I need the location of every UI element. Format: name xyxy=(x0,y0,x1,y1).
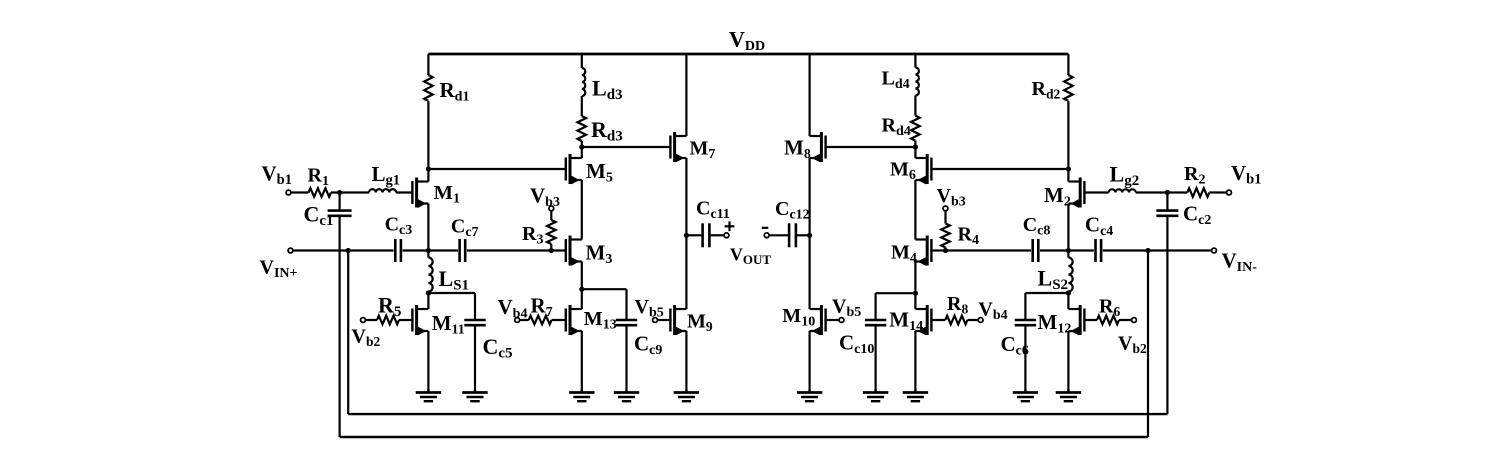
svg-text:LS2: LS2 xyxy=(1038,266,1069,294)
transistor M4 xyxy=(915,236,931,266)
wire Vb3 to R4 xyxy=(944,211,946,224)
wire Cc9 top xyxy=(625,289,627,320)
resistor Rd3 xyxy=(578,116,587,141)
node Rd3 bottom xyxy=(579,144,584,149)
ground Cc9 xyxy=(614,389,639,401)
ground Cc10 xyxy=(863,389,888,401)
svg-text:M3: M3 xyxy=(586,241,613,268)
wire Cc1 to bottom feedback wire xyxy=(339,216,341,437)
ground M9 xyxy=(674,389,699,401)
wire Ld4 to Rd4 xyxy=(914,96,916,116)
svg-text:Vb4: Vb4 xyxy=(978,299,1007,324)
inductor LS2 xyxy=(1068,258,1072,292)
svg-text:Lg1: Lg1 xyxy=(372,162,401,189)
svg-text:M11: M11 xyxy=(432,311,465,338)
transistor M8 xyxy=(810,132,826,162)
svg-text:R7: R7 xyxy=(531,294,553,321)
svg-text:Cc9: Cc9 xyxy=(634,332,662,359)
wire to LS2 xyxy=(1067,251,1069,258)
node Cc12 junction xyxy=(807,233,812,238)
node LS1 bottom xyxy=(426,290,431,295)
minus sign xyxy=(762,227,769,229)
wire M8 source to M10 drain xyxy=(808,158,810,309)
svg-text:LS1: LS1 xyxy=(439,266,470,294)
svg-text:Ld4: Ld4 xyxy=(882,67,910,92)
wire Cc10 top xyxy=(874,293,876,320)
wire Vb3 to R3 xyxy=(550,211,552,220)
svg-text:M5: M5 xyxy=(586,159,613,186)
terminal VIN- xyxy=(1212,248,1217,253)
wire R3 to gate wire xyxy=(550,244,552,251)
node M2 drain xyxy=(1066,166,1071,171)
wire R6 to Vb2 xyxy=(1119,319,1131,321)
svg-text:Rd4: Rd4 xyxy=(882,114,911,139)
wire M7 drain to rail xyxy=(685,54,687,136)
transistor M14 xyxy=(915,305,931,335)
wire Vb2 to R5 xyxy=(366,319,377,321)
wire M7 source to M9 drain xyxy=(685,158,687,309)
resistor Rd4 xyxy=(911,116,920,141)
transistor M7 xyxy=(670,132,686,162)
svg-text:Vb1: Vb1 xyxy=(1231,161,1262,188)
svg-text:Cc8: Cc8 xyxy=(1023,214,1051,239)
svg-text:M7: M7 xyxy=(690,138,716,163)
resistor R1 xyxy=(309,188,332,197)
wire Rd1 top xyxy=(427,54,429,75)
wire M8 drain to rail xyxy=(808,54,810,136)
svg-text:VOUT: VOUT xyxy=(730,244,772,267)
svg-text:M6: M6 xyxy=(890,159,916,184)
wire Ld3 to Rd3 xyxy=(581,96,583,116)
svg-text:M9: M9 xyxy=(687,311,713,335)
svg-text:M14: M14 xyxy=(889,307,923,334)
node M3 M13 tee xyxy=(579,287,584,292)
wire Rd1 to M1 drain xyxy=(427,101,429,182)
transistor M5 xyxy=(566,154,582,184)
svg-text:M8: M8 xyxy=(784,136,811,163)
wire Cc4 to VIN- terminal xyxy=(1103,249,1212,251)
wire M5 source to M3 drain xyxy=(581,180,583,240)
svg-text:Cc2: Cc2 xyxy=(1183,202,1211,229)
node LS2 bottom xyxy=(1066,290,1071,295)
terminal Vb2 right xyxy=(1132,318,1137,323)
resistor R8 xyxy=(945,316,967,325)
wire M2 source to input node xyxy=(1067,204,1069,251)
wire terminal to Cc12 xyxy=(769,234,788,236)
capacitor Cc11 xyxy=(701,223,704,247)
inductor Lg1 xyxy=(369,189,396,192)
svg-text:Vb2: Vb2 xyxy=(1118,333,1147,357)
wire M6 gate to M2 drain xyxy=(931,168,1068,170)
capacitor Cc6 xyxy=(1015,319,1036,322)
transistor M11 xyxy=(412,305,428,335)
svg-text:M1: M1 xyxy=(434,182,460,207)
resistor R5 xyxy=(377,316,399,325)
node VIN+ tee xyxy=(346,248,351,253)
wire Cc6 top xyxy=(1024,293,1026,320)
svg-text:Rd2: Rd2 xyxy=(1032,78,1061,102)
svg-text:Vb1: Vb1 xyxy=(262,162,293,189)
svg-text:Cc4: Cc4 xyxy=(1085,213,1113,240)
wire node to Cc6 xyxy=(1025,292,1068,294)
node R1 Lg1 Cc1 xyxy=(337,190,342,195)
wire to LS1 xyxy=(427,251,429,258)
svg-text:Vb3: Vb3 xyxy=(530,184,560,211)
wire Cc9 to ground xyxy=(625,325,627,389)
wire Cc6 to ground xyxy=(1024,325,1026,389)
terminal Vb2 left xyxy=(361,318,366,323)
wire Rd2 to M2 drain xyxy=(1067,101,1069,182)
svg-text:R8: R8 xyxy=(947,293,968,317)
capacitor Cc2 xyxy=(1156,209,1178,212)
wire VIN+ tee down xyxy=(347,251,349,415)
node M2 source input xyxy=(1066,248,1071,253)
wire Cc12 to node xyxy=(797,234,810,236)
wire M1 source to input node xyxy=(427,204,429,251)
svg-text:R3: R3 xyxy=(522,223,543,248)
svg-text:VIN-: VIN- xyxy=(1222,248,1258,275)
wire M14 source to ground xyxy=(914,331,916,389)
wire Vb4 to R7 xyxy=(520,319,529,321)
ground M13 xyxy=(569,389,594,401)
capacitor Cc9 xyxy=(616,319,637,322)
svg-text:R1: R1 xyxy=(308,164,329,189)
wire R7 to M13 gate xyxy=(552,319,566,321)
wire M4 source to M14 drain xyxy=(914,262,916,310)
wire Cc3 to Cc7 xyxy=(403,249,458,251)
wire Ld4 top xyxy=(914,54,916,68)
wire Rd3 node to M7 gate xyxy=(582,146,671,148)
terminal Vb4 right xyxy=(978,318,983,323)
ground M12 xyxy=(1056,389,1081,401)
wire R4 to gate wire xyxy=(944,248,946,251)
terminal Vb1 right xyxy=(1227,190,1232,195)
wire M10 gate to Vb5 xyxy=(826,319,839,321)
wire Cc10 to ground xyxy=(874,325,876,389)
wire Rd2 top xyxy=(1067,54,1069,75)
ground M10 xyxy=(797,389,822,401)
terminal Vb1 left xyxy=(286,190,291,195)
node M1 drain xyxy=(426,166,431,171)
wire LS1 to M11 drain xyxy=(427,292,429,310)
svg-text:M4: M4 xyxy=(891,242,917,267)
node M1 source input xyxy=(426,248,431,253)
resistor Rd2 xyxy=(1064,75,1073,101)
wire VIN- tee down xyxy=(1147,251,1149,438)
wire Cc1 top xyxy=(339,193,341,211)
svg-text:Vb5: Vb5 xyxy=(635,296,664,321)
svg-text:Cc10: Cc10 xyxy=(839,331,874,358)
resistor R2 xyxy=(1187,188,1209,197)
wire M3 source to M13 drain xyxy=(581,262,583,310)
plus sign xyxy=(725,221,735,231)
svg-text:Ld3: Ld3 xyxy=(592,76,623,104)
svg-text:VIN+: VIN+ xyxy=(260,257,298,282)
transistor M13 xyxy=(566,305,582,335)
svg-text:Lg2: Lg2 xyxy=(1110,162,1140,190)
wire M11 source to ground xyxy=(427,331,429,389)
resistor Rd1 xyxy=(424,75,433,101)
svg-text:Cc1: Cc1 xyxy=(304,202,334,230)
node Rd4 bottom xyxy=(913,144,918,149)
wire node to R2 xyxy=(1167,191,1187,193)
capacitor Cc5 xyxy=(464,319,485,322)
node M4 M14 tee xyxy=(913,291,918,296)
wire Rd4 to M6 drain xyxy=(914,141,916,158)
node VIN- tee xyxy=(1145,248,1150,253)
wire Cc2 top xyxy=(1166,193,1168,211)
wire Rd3 to M5 drain xyxy=(581,141,583,158)
wire R8 to Vb4 xyxy=(967,319,978,321)
wire Cc5 top xyxy=(474,293,476,320)
wire Cc11 to terminal xyxy=(711,234,724,236)
svg-text:Cc11: Cc11 xyxy=(696,198,730,223)
wire VIN+ input xyxy=(293,249,394,251)
ground M14 xyxy=(903,389,928,401)
wire Cc2 to bottom feedback wire xyxy=(1166,216,1168,414)
wire R5 to M11 gate xyxy=(399,319,412,321)
wire Lg1 to M1 gate xyxy=(396,191,412,193)
terminal Vb5 right xyxy=(839,318,844,323)
transistor M2 xyxy=(1068,178,1084,208)
svg-text:Cc3: Cc3 xyxy=(385,213,413,238)
wire M12 gate to R6 xyxy=(1084,319,1097,321)
wire M12 source to ground xyxy=(1067,331,1069,389)
svg-text:Rd3: Rd3 xyxy=(591,117,623,145)
wire M8 gate to Rd4 node xyxy=(826,146,916,148)
wire LS2 to M12 drain xyxy=(1067,292,1069,310)
wire M4 gate to Cc8 xyxy=(931,249,1031,251)
wire M10 source to ground xyxy=(808,331,810,389)
capacitor Cc12 xyxy=(788,223,791,247)
wire M1 drain to M5 gate xyxy=(428,168,565,170)
svg-text:Cc12: Cc12 xyxy=(775,198,810,223)
node R4 junction xyxy=(943,248,948,253)
capacitor Cc3 xyxy=(394,239,397,262)
ground Cc6 xyxy=(1013,389,1038,401)
wire Cc5 to ground xyxy=(474,325,476,389)
capacitor Cc8 xyxy=(1031,239,1034,262)
svg-text:VDD: VDD xyxy=(729,27,765,55)
terminal Vb5 left xyxy=(653,318,658,323)
ground M11 xyxy=(416,389,441,401)
svg-text:Vb4: Vb4 xyxy=(498,295,528,322)
svg-text:Rd1: Rd1 xyxy=(440,78,470,105)
node Cc11 junction xyxy=(684,233,689,238)
transistor M1 xyxy=(412,178,428,208)
wire M2 gate to Lg2 xyxy=(1084,191,1108,193)
wire cross-coupling upper xyxy=(348,413,1167,415)
wire tee to Cc10 xyxy=(876,292,916,294)
terminal VOUT minus xyxy=(764,233,769,238)
svg-text:M13: M13 xyxy=(584,308,617,333)
terminal VOUT plus xyxy=(724,233,729,238)
terminal VIN+ xyxy=(288,248,293,253)
node R3 junction xyxy=(549,248,554,253)
resistor R4 xyxy=(941,224,950,248)
wire M6 source to M4 drain xyxy=(914,180,916,240)
terminal Vb4 left xyxy=(515,318,520,323)
svg-text:R4: R4 xyxy=(958,224,979,249)
inductor Lg2 xyxy=(1109,189,1136,192)
capacitor Cc7 xyxy=(458,239,461,262)
capacitor Cc1 xyxy=(328,209,352,212)
transistor M10 xyxy=(810,305,826,335)
wire Cc8 to Cc4 xyxy=(1040,249,1094,251)
transistor M9 xyxy=(670,305,686,335)
wire Vb1 to R1 xyxy=(291,191,308,193)
wire Lg2 to node xyxy=(1136,191,1168,193)
terminal Vb3 left xyxy=(549,206,554,211)
capacitor Cc4 xyxy=(1094,239,1097,262)
ground Cc5 xyxy=(462,389,487,401)
wire Cc11 left xyxy=(686,234,701,236)
svg-text:Vb3: Vb3 xyxy=(937,185,966,210)
resistor R3 xyxy=(547,220,556,244)
svg-text:R2: R2 xyxy=(1184,163,1205,188)
wire Vb5 to M9 gate xyxy=(658,319,671,321)
inductor LS1 xyxy=(428,258,432,292)
wire Cc7 to M3 gate xyxy=(467,249,566,251)
wire node to Cc5 xyxy=(428,292,475,294)
wire R2 to Vb1 xyxy=(1209,191,1226,193)
svg-text:Cc5: Cc5 xyxy=(483,334,513,362)
resistor R7 xyxy=(529,316,552,325)
transistor M3 xyxy=(566,236,582,266)
wire Ld3 top xyxy=(581,54,583,68)
svg-text:M2: M2 xyxy=(1044,183,1071,210)
inductor Ld3 xyxy=(582,68,586,96)
inductor Ld4 xyxy=(915,68,919,96)
wire tee to Cc9 xyxy=(582,288,627,290)
resistor R6 xyxy=(1097,316,1119,325)
wire R1 to Lg1 xyxy=(331,191,369,193)
node Lg2 R2 Cc2 xyxy=(1165,190,1170,195)
svg-text:R6: R6 xyxy=(1099,296,1120,320)
VDD supply rail xyxy=(428,53,1068,56)
wire cross-coupling lower xyxy=(340,436,1148,438)
capacitor Cc10 xyxy=(865,319,886,322)
svg-text:R5: R5 xyxy=(378,293,401,321)
svg-text:M12: M12 xyxy=(1038,310,1072,337)
svg-text:Vb2: Vb2 xyxy=(352,326,381,350)
svg-text:Vb5: Vb5 xyxy=(832,296,861,321)
terminal Vb3 right xyxy=(943,206,948,211)
transistor M6 xyxy=(915,154,931,184)
wire M13 source to ground xyxy=(581,331,583,389)
wire M9 source to ground xyxy=(685,331,687,389)
wire M14 gate to R8 xyxy=(931,319,945,321)
svg-text:Cc7: Cc7 xyxy=(451,215,479,240)
transistor M12 xyxy=(1068,305,1084,335)
